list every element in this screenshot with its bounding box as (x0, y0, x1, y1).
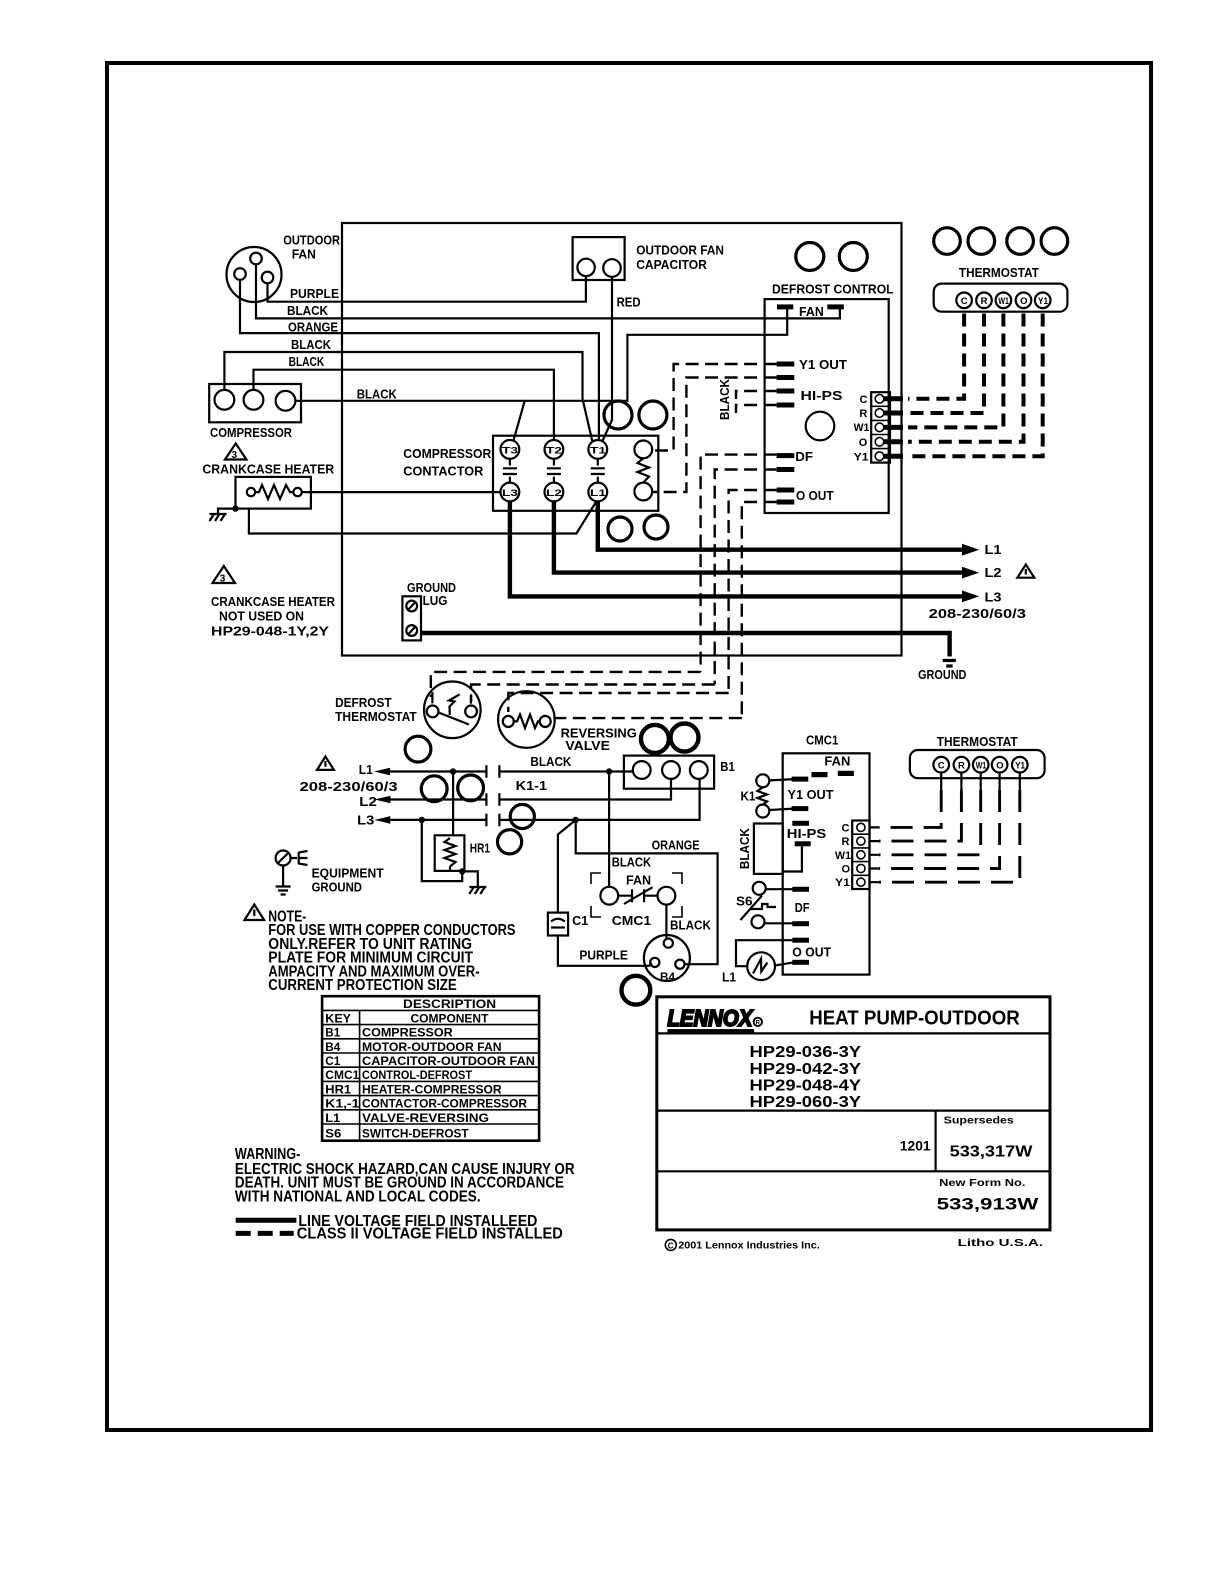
svg-text:L1: L1 (985, 543, 1002, 557)
svg-text:PURPLE: PURPLE (290, 287, 339, 301)
svg-text:CAPACITOR: CAPACITOR (636, 258, 707, 272)
svg-text:CURRENT PROTECTION SIZE: CURRENT PROTECTION SIZE (268, 977, 456, 994)
svg-text:WITH NATIONAL AND LOCAL CODES.: WITH NATIONAL AND LOCAL CODES. (235, 1188, 481, 1205)
svg-text:B1: B1 (325, 1026, 340, 1040)
svg-text:S6: S6 (736, 895, 753, 909)
svg-text:GROUND: GROUND (918, 668, 966, 682)
svg-text:BLACK: BLACK (357, 388, 397, 402)
svg-text:DF: DF (795, 901, 810, 915)
svg-text:B4: B4 (325, 1040, 340, 1054)
svg-text:CMC1: CMC1 (325, 1068, 359, 1082)
svg-text:3: 3 (232, 450, 238, 461)
svg-text:W1: W1 (854, 422, 870, 434)
svg-text:KEY: KEY (325, 1011, 351, 1025)
svg-text:New Form No.: New Form No. (939, 1177, 1025, 1189)
svg-text:FAN: FAN (292, 248, 316, 262)
svg-text:HP29-048-4Y: HP29-048-4Y (750, 1077, 862, 1094)
svg-text:208-230/60/3: 208-230/60/3 (300, 780, 398, 794)
svg-text:HEAT PUMP-OUTDOOR: HEAT PUMP-OUTDOOR (809, 1008, 1020, 1030)
svg-text:S6: S6 (325, 1127, 341, 1141)
svg-text:COMPRESSOR: COMPRESSOR (210, 426, 292, 440)
svg-text:208-230/60/3: 208-230/60/3 (929, 607, 1026, 621)
svg-text:L1: L1 (325, 1111, 340, 1125)
svg-text:BLACK: BLACK (738, 828, 752, 869)
svg-text:OUTDOOR: OUTDOOR (283, 234, 340, 248)
svg-text:C: C (961, 296, 968, 307)
svg-text:L3: L3 (985, 591, 1002, 605)
svg-text:BLACK: BLACK (289, 355, 325, 369)
svg-text:R: R (981, 296, 988, 307)
svg-text:1201: 1201 (900, 1137, 931, 1153)
svg-text:533,317W: 533,317W (950, 1143, 1033, 1160)
svg-text:C1: C1 (325, 1054, 340, 1068)
svg-text:FAN: FAN (824, 754, 850, 768)
svg-text:CONTROL-DEFROST: CONTROL-DEFROST (362, 1068, 473, 1082)
svg-text:C: C (842, 822, 850, 834)
svg-text:CRANKCASE HEATER: CRANKCASE HEATER (211, 595, 335, 609)
svg-text:LUG: LUG (423, 594, 448, 608)
svg-text:W1: W1 (976, 761, 987, 772)
svg-text:Y1: Y1 (854, 451, 869, 463)
svg-text:COMPONENT: COMPONENT (411, 1011, 490, 1025)
svg-text:L2: L2 (359, 795, 377, 809)
svg-text:THERMOSTAT: THERMOSTAT (937, 735, 1018, 749)
svg-text:ORANGE: ORANGE (652, 839, 700, 853)
svg-text:HR1: HR1 (470, 841, 490, 855)
svg-text:EQUIPMENT: EQUIPMENT (312, 866, 384, 880)
svg-text:MOTOR-OUTDOOR FAN: MOTOR-OUTDOOR FAN (362, 1040, 502, 1054)
svg-text:O OUT: O OUT (792, 945, 831, 959)
svg-text:K1,-1: K1,-1 (325, 1097, 359, 1111)
svg-text:HI-PS: HI-PS (801, 389, 843, 403)
svg-text:3: 3 (220, 573, 226, 584)
svg-text:C1: C1 (572, 914, 588, 928)
svg-text:2001 Lennox Industries Inc.: 2001 Lennox Industries Inc. (678, 1240, 819, 1252)
svg-text:Y1: Y1 (1038, 296, 1049, 307)
svg-text:L3: L3 (357, 813, 374, 827)
svg-text:O: O (996, 761, 1003, 772)
svg-text:CONTACTOR-COMPRESSOR: CONTACTOR-COMPRESSOR (362, 1097, 527, 1111)
svg-text:ORANGE: ORANGE (288, 321, 338, 335)
svg-text:Litho U.S.A.: Litho U.S.A. (958, 1237, 1043, 1249)
svg-text:HI-PS: HI-PS (787, 827, 827, 841)
svg-text:CLASS II VOLTAGE FIELD INSTALL: CLASS II VOLTAGE FIELD INSTALLED (297, 1226, 563, 1243)
svg-text:Y1: Y1 (835, 877, 850, 889)
svg-text:L2: L2 (546, 488, 562, 499)
svg-text:VALVE-REVERSING: VALVE-REVERSING (362, 1111, 489, 1125)
svg-text:Y1 OUT: Y1 OUT (799, 358, 847, 372)
svg-text:HR1: HR1 (325, 1082, 351, 1096)
svg-text:HP29-036-3Y: HP29-036-3Y (750, 1044, 862, 1061)
svg-text:BLACK: BLACK (530, 755, 571, 769)
svg-text:PURPLE: PURPLE (579, 949, 628, 963)
svg-text:B1: B1 (720, 760, 735, 774)
svg-text:L2: L2 (985, 566, 1002, 580)
svg-text:W1: W1 (998, 296, 1009, 307)
svg-text:LENNOX: LENNOX (667, 1005, 753, 1031)
svg-text:CONTACTOR: CONTACTOR (403, 465, 483, 479)
svg-text:GROUND: GROUND (312, 881, 362, 895)
svg-text:BLACK: BLACK (718, 379, 732, 420)
svg-text:L3: L3 (502, 488, 518, 499)
svg-text:THERMOSTAT: THERMOSTAT (959, 266, 1039, 280)
svg-text:L1: L1 (590, 488, 607, 499)
svg-text:CAPACITOR-OUTDOOR FAN: CAPACITOR-OUTDOOR FAN (362, 1054, 535, 1068)
svg-text:R: R (859, 408, 867, 420)
svg-text:VALVE: VALVE (565, 739, 610, 753)
svg-text:CRANKCASE HEATER: CRANKCASE HEATER (202, 463, 334, 477)
svg-text:FAN: FAN (626, 874, 651, 888)
svg-text:BLACK: BLACK (670, 918, 711, 932)
svg-text:O OUT: O OUT (796, 489, 834, 503)
svg-text:L1: L1 (722, 971, 736, 985)
svg-text:C: C (938, 761, 945, 772)
svg-text:Y1: Y1 (1015, 761, 1026, 772)
svg-text:R: R (842, 836, 850, 848)
svg-text:COMPRESSOR: COMPRESSOR (403, 447, 491, 461)
svg-text:L1: L1 (359, 763, 373, 777)
svg-text:BLACK: BLACK (287, 304, 328, 318)
svg-text:O: O (1020, 296, 1027, 307)
svg-text:C: C (860, 394, 868, 406)
svg-text:T3: T3 (502, 446, 518, 457)
svg-text:O: O (859, 437, 868, 449)
svg-text:THERMOSTAT: THERMOSTAT (335, 710, 417, 724)
svg-text:R: R (756, 1020, 761, 1026)
svg-text:BLACK: BLACK (291, 338, 331, 352)
svg-text:CMC1: CMC1 (806, 734, 838, 748)
svg-text:W1: W1 (835, 850, 851, 862)
svg-text:CMC1: CMC1 (612, 914, 651, 928)
svg-text:Supersedes: Supersedes (944, 1114, 1014, 1126)
svg-text:533,913W: 533,913W (937, 1195, 1040, 1214)
svg-text:NOT USED ON: NOT USED ON (219, 610, 304, 624)
svg-text:GROUND: GROUND (407, 581, 456, 595)
svg-text:SWITCH-DEFROST: SWITCH-DEFROST (362, 1127, 469, 1141)
svg-text:K1-1: K1-1 (516, 779, 548, 793)
svg-text:HP29-048-1Y,2Y: HP29-048-1Y,2Y (211, 625, 330, 639)
svg-text:DEFROST CONTROL: DEFROST CONTROL (772, 283, 894, 297)
svg-text:C: C (668, 1241, 674, 1250)
svg-text:HEATER-COMPRESSOR: HEATER-COMPRESSOR (362, 1082, 502, 1096)
svg-text:R: R (958, 761, 965, 772)
svg-text:T1: T1 (590, 446, 607, 457)
svg-text:HP29-060-3Y: HP29-060-3Y (750, 1094, 862, 1111)
svg-text:T2: T2 (546, 446, 562, 457)
svg-text:FAN: FAN (799, 305, 824, 319)
svg-text:RED: RED (617, 296, 641, 310)
svg-text:OUTDOOR FAN: OUTDOOR FAN (636, 243, 724, 257)
svg-text:K1: K1 (741, 790, 756, 804)
svg-text:HP29-042-3Y: HP29-042-3Y (750, 1061, 862, 1078)
svg-text:BLACK: BLACK (612, 856, 651, 870)
svg-text:B4: B4 (660, 972, 676, 984)
svg-text:Y1 OUT: Y1 OUT (788, 788, 834, 802)
svg-text:COMPRESSOR: COMPRESSOR (362, 1026, 453, 1040)
svg-text:DEFROST: DEFROST (335, 696, 392, 710)
svg-text:DESCRIPTION: DESCRIPTION (403, 997, 496, 1011)
svg-text:DF: DF (795, 450, 813, 464)
svg-text:O: O (842, 864, 851, 876)
